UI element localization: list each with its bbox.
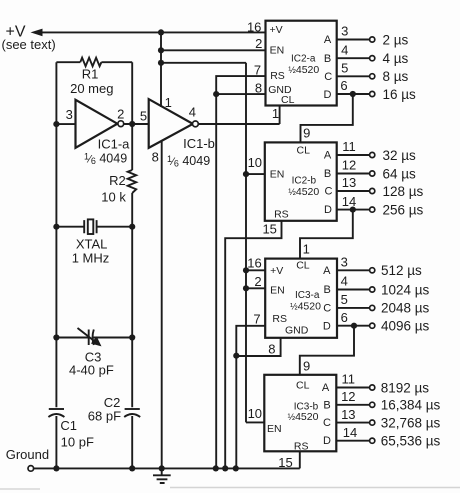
svg-text:RS: RS <box>274 208 289 220</box>
svg-text:2048 µs: 2048 µs <box>381 301 430 316</box>
wire IC2-a output D pin6 <box>337 93 370 95</box>
svg-text:B: B <box>323 399 330 411</box>
svg-text:2: 2 <box>255 36 262 51</box>
node output 4us <box>370 56 375 61</box>
wire feed to lower EN bus <box>161 62 246 64</box>
svg-text:14: 14 <box>343 425 357 440</box>
svg-text:RS: RS <box>270 70 285 82</box>
node output 65536us <box>370 438 375 443</box>
op-amp U2 inverter IC1-b <box>149 99 199 148</box>
node output 8192us <box>370 385 375 390</box>
svg-text:1⁄6 4049: 1⁄6 4049 <box>167 154 210 169</box>
svg-text:1024 µs: 1024 µs <box>381 282 430 297</box>
junction RS/GND IC3-a <box>233 353 239 359</box>
svg-text:16,384 µs: 16,384 µs <box>381 398 441 413</box>
svg-text:5: 5 <box>341 292 348 307</box>
wire IC3-a output B pin4 <box>337 289 370 291</box>
svg-text:D: D <box>323 435 331 447</box>
svg-text:C: C <box>323 417 331 429</box>
junction 16us feed <box>350 91 356 97</box>
junction C3 right <box>129 334 135 340</box>
svg-text:128 µs: 128 µs <box>383 184 424 199</box>
svg-text:IC1-a: IC1-a <box>98 136 131 151</box>
wire right bus (R2/XTAL/C3/C2 column) <box>131 62 133 468</box>
wire IC2-b output A pin11 <box>337 154 370 156</box>
svg-text:13: 13 <box>341 407 355 422</box>
node output 1024us <box>370 287 375 292</box>
faint scan streak <box>170 487 460 489</box>
ground symbol <box>153 468 171 483</box>
junction EN IC3-a <box>243 285 249 291</box>
svg-text:1 MHz: 1 MHz <box>72 251 110 266</box>
svg-text:10: 10 <box>248 155 262 170</box>
capacitor C1 <box>48 409 64 417</box>
svg-text:C: C <box>323 303 331 315</box>
svg-text:4: 4 <box>189 105 196 120</box>
svg-text:(see text): (see text) <box>2 37 56 52</box>
svg-text:12: 12 <box>342 158 356 173</box>
counter U4 IC2-b box <box>265 142 337 220</box>
svg-text:½4520: ½4520 <box>288 186 319 198</box>
wire IC2-a ground bus <box>215 94 217 468</box>
svg-text:8192 µs: 8192 µs <box>381 380 430 395</box>
node output 8us <box>370 74 375 79</box>
svg-text:IC3-a: IC3-a <box>295 290 320 301</box>
svg-text:R1: R1 <box>82 67 99 82</box>
svg-text:4: 4 <box>341 42 348 57</box>
wire IC3-a output D pin6 <box>337 325 370 327</box>
resistor R2 <box>128 170 137 193</box>
wire EN IC3-b <box>246 421 264 423</box>
svg-text:XTAL: XTAL <box>76 237 108 252</box>
op-amp U1 inverter IC1-a <box>76 100 124 148</box>
node Ground terminal <box>28 466 34 472</box>
svg-text:11: 11 <box>342 139 356 154</box>
svg-text:15: 15 <box>278 455 292 470</box>
svg-text:1: 1 <box>272 106 279 121</box>
svg-text:CL: CL <box>297 145 311 157</box>
svg-text:16 µs: 16 µs <box>383 87 417 102</box>
svg-text:2: 2 <box>254 274 261 289</box>
svg-text:½4520: ½4520 <box>288 64 319 76</box>
svg-text:4096 µs: 4096 µs <box>381 319 430 334</box>
svg-text:Ground: Ground <box>6 447 49 462</box>
svg-text:15: 15 <box>262 222 276 237</box>
junction EN line <box>158 47 164 53</box>
junction rail x132 <box>129 465 135 471</box>
junction EN IC2-b <box>243 171 249 177</box>
counter U5 IC3-a box <box>265 259 337 338</box>
crystal XTAL <box>56 219 132 234</box>
wire RS IC3-a <box>236 326 265 356</box>
node output 4096us <box>370 323 375 328</box>
wire GND pin8 <box>216 93 265 95</box>
svg-text:8: 8 <box>268 341 275 356</box>
wire 4096us to IC3-b CL <box>300 326 354 375</box>
svg-text:10 k: 10 k <box>101 190 126 205</box>
node output 64us <box>370 171 375 176</box>
svg-text:A: A <box>324 150 332 162</box>
wire IC3-b output B pin12 <box>336 404 369 406</box>
svg-text:16: 16 <box>247 19 261 34</box>
junction rail x161 <box>159 465 165 471</box>
svg-text:IC2-b: IC2-b <box>292 175 317 186</box>
svg-text:CL: CL <box>296 260 310 272</box>
wire IC2-b output B pin12 <box>337 173 370 175</box>
svg-text:B: B <box>324 53 331 65</box>
svg-text:+V: +V <box>270 24 283 36</box>
svg-text:EN: EN <box>267 423 282 435</box>
junction feed <box>158 60 164 66</box>
capacitor C3 (variable) <box>56 328 132 346</box>
svg-text:C1: C1 <box>60 418 77 433</box>
svg-text:4 µs: 4 µs <box>383 51 409 66</box>
wire EN IC3-a <box>246 287 265 289</box>
svg-text:A: A <box>322 382 330 394</box>
svg-text:256 µs: 256 µs <box>383 202 424 217</box>
svg-text:A: A <box>323 265 331 277</box>
wire RS IC3-b to rail <box>299 451 301 468</box>
svg-text:2: 2 <box>117 106 124 121</box>
svg-text:1: 1 <box>165 95 172 110</box>
wire EN line to IC2-a pin 2 <box>161 49 266 51</box>
wire IC3-b output C pin13 <box>336 422 369 424</box>
svg-text:10 pF: 10 pF <box>61 435 94 450</box>
svg-text:B: B <box>324 168 331 180</box>
svg-text:11: 11 <box>342 372 356 387</box>
node output 256us <box>370 207 375 212</box>
junction 256us feed <box>350 207 356 213</box>
svg-text:CL: CL <box>281 94 295 106</box>
svg-text:6: 6 <box>340 78 347 93</box>
svg-text:EN: EN <box>270 45 285 57</box>
svg-text:D: D <box>324 89 332 101</box>
node output 512us <box>370 268 375 273</box>
svg-text:+V: +V <box>270 265 283 277</box>
junction rail x215 <box>213 465 219 471</box>
svg-text:3: 3 <box>66 107 73 122</box>
junction 4096us feed <box>351 323 357 329</box>
counter U3 IC2-a box <box>266 21 337 106</box>
svg-text:½4520: ½4520 <box>288 411 319 423</box>
svg-text:5: 5 <box>140 108 147 123</box>
node output 128us <box>370 188 375 193</box>
wire IC2-a output B pin4 <box>337 57 370 59</box>
wire EN IC2-b <box>246 173 265 175</box>
svg-text:64 µs: 64 µs <box>383 166 417 181</box>
svg-text:IC1-b: IC1-b <box>183 136 215 151</box>
wire +V IC3-a <box>246 269 265 271</box>
wire 16us to IC2-b CL <box>301 94 353 142</box>
junction rail x56 <box>53 465 59 471</box>
wire IC3-a output C pin5 <box>337 307 370 309</box>
wire IC2-b output C pin13 <box>337 190 370 192</box>
wire IC2-b output D pin14 <box>337 209 370 211</box>
svg-text:9: 9 <box>303 359 310 374</box>
node +V supply arrow <box>31 29 266 37</box>
wire IC1-b pin 8 to ground <box>161 141 163 469</box>
wire IC3-b output A pin11 <box>336 387 369 389</box>
svg-text:512 µs: 512 µs <box>381 263 422 278</box>
svg-text:10: 10 <box>248 406 262 421</box>
wire IC3-a output A pin3 <box>337 269 370 271</box>
svg-text:5: 5 <box>341 61 348 76</box>
svg-text:12: 12 <box>341 389 355 404</box>
svg-text:65,536 µs: 65,536 µs <box>381 434 441 449</box>
svg-text:1: 1 <box>303 241 310 256</box>
svg-text:D: D <box>323 320 331 332</box>
svg-text:D: D <box>324 204 332 216</box>
wire IC1-b output to IC2-a CL <box>198 123 279 125</box>
svg-text:68 pF: 68 pF <box>88 409 121 424</box>
wire ground rail <box>34 467 300 469</box>
junction IC1-a input node <box>53 121 59 127</box>
svg-text:14: 14 <box>342 194 356 209</box>
junction +V IC3-a <box>243 267 249 273</box>
svg-text:20 meg: 20 meg <box>70 81 113 96</box>
wire left bus (R1/XTAL/C3/C1 column) <box>55 62 57 468</box>
svg-text:RS: RS <box>294 440 309 452</box>
svg-text:9: 9 <box>303 126 310 141</box>
svg-text:EN: EN <box>270 169 285 181</box>
node output 16us <box>370 91 375 96</box>
svg-text:A: A <box>324 34 332 46</box>
svg-text:B: B <box>324 284 331 296</box>
svg-text:4-40 pF: 4-40 pF <box>69 363 114 378</box>
svg-text:IC2-a: IC2-a <box>291 54 316 65</box>
wire RS IC2-b to ground bus <box>225 221 281 469</box>
svg-text:8 µs: 8 µs <box>383 69 409 84</box>
svg-text:6: 6 <box>341 310 348 325</box>
svg-text:R2: R2 <box>109 173 126 188</box>
svg-text:7: 7 <box>253 312 260 327</box>
wire IC2-a output C pin5 <box>337 75 370 77</box>
svg-text:3: 3 <box>341 255 348 270</box>
svg-text:3: 3 <box>341 24 348 39</box>
junction XTAL right <box>129 224 135 230</box>
wire IC3-a ground bus <box>235 356 237 469</box>
svg-text:C: C <box>325 186 333 198</box>
svg-text:13: 13 <box>342 175 356 190</box>
wire IC2-a output A pin3 <box>337 39 370 41</box>
wire IC2-a CL drop <box>279 106 281 125</box>
svg-text:1⁄6 4049: 1⁄6 4049 <box>84 151 127 166</box>
svg-text:2 µs: 2 µs <box>383 32 409 47</box>
wire GND IC3-a <box>236 338 280 356</box>
node output 2us <box>370 37 375 42</box>
wire vertical from +V line to IC1-b pin 1 <box>160 32 162 107</box>
svg-text:RS: RS <box>272 313 287 325</box>
svg-text:½4520: ½4520 <box>290 301 321 313</box>
svg-text:32 µs: 32 µs <box>383 148 417 163</box>
resistor R1 <box>56 58 132 66</box>
junction RS/GND <box>213 91 219 97</box>
junction XTAL left <box>53 224 59 230</box>
svg-text:CL: CL <box>296 380 310 392</box>
junction on +V line <box>158 29 164 35</box>
svg-text:8: 8 <box>152 149 159 164</box>
node output 32us <box>370 152 375 157</box>
svg-text:C: C <box>324 71 332 83</box>
svg-text:32,768 µs: 32,768 µs <box>381 415 441 430</box>
wire 256us to IC3-a CL <box>300 210 353 259</box>
counter U6 IC3-b box <box>264 375 336 452</box>
svg-text:16: 16 <box>247 255 261 270</box>
wire IC1-a input <box>56 123 75 125</box>
node output 32768us <box>370 420 375 425</box>
node output 2048us <box>370 305 375 310</box>
svg-text:4: 4 <box>341 274 348 289</box>
svg-text:GND: GND <box>285 325 309 337</box>
junction rail x236 <box>233 465 239 471</box>
junction rail x225 <box>222 465 228 471</box>
wire EN/+V vertical bus <box>245 63 247 423</box>
wire RS pin7 <box>216 76 265 94</box>
wire IC3-b output D pin14 <box>336 440 369 442</box>
capacitor C2 <box>124 409 140 417</box>
junction node at R2 top <box>129 121 135 127</box>
svg-text:EN: EN <box>270 284 285 296</box>
junction C3 left <box>53 334 59 340</box>
node output 16384us <box>370 402 375 407</box>
wire IC1-a output to IC1-b input <box>124 123 149 125</box>
